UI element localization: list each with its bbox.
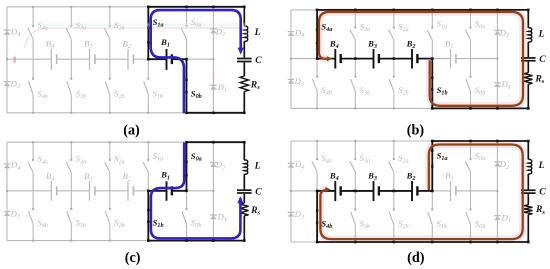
battery B1 [166,49,168,70]
switch S0a (closed) [186,142,188,191]
switch S2a (open) [109,142,111,159]
wire diode column [496,10,498,109]
wire bottom rail gray [291,241,317,243]
wire bottom rail bold [187,112,245,114]
switch S1b (open) [147,59,149,78]
diode D1 [210,214,217,216]
svg-text:L: L [538,28,545,39]
svg-text:C: C [539,187,546,198]
wire top rail bold [148,6,244,8]
junction dots top rail [32,141,34,143]
battery B2 [411,181,413,201]
wire top rail gray [7,6,148,8]
switch S0b (open) [186,191,188,209]
battery B4 [50,49,52,70]
switch S1b (closed) [431,59,433,109]
diode D1 [210,84,217,86]
battery B4 [334,49,336,69]
wire top rail bold [317,9,528,11]
switch S2b (open) [109,59,111,78]
junction dots middle rail [316,57,319,60]
junction dots top rail [32,6,34,8]
wire middle rail gray [291,58,317,60]
current path blue (S0a - B1 - S1b - load) [151,142,241,238]
junction dots bottom rail [316,241,319,244]
wire left edge (a) [6,7,8,113]
wire middle rail bold [148,190,166,192]
junction dots top rail [316,140,318,142]
resistor Rs [524,205,532,215]
diode D3 [4,211,11,213]
wire top rail gray [291,140,432,142]
switch S0b (closed) [186,59,188,113]
switch S1a (closed) [431,141,433,191]
switch S3b (open) [354,191,356,209]
switch S4b (closed) [316,191,318,242]
junction dots bottom rail [316,107,318,109]
current path red halo [319,12,523,106]
switch S2a (open) [109,7,111,26]
wire top rail gray [291,9,317,11]
junction dots top rail [316,9,319,12]
battery B2 [127,49,129,70]
svg-text:C: C [539,54,546,65]
switch S3a (open) [70,7,72,26]
switch S2a (open) [393,10,395,27]
junction dots middle rail [316,190,319,193]
wire top rail bold [187,141,245,143]
switch S4b (open) [32,191,34,209]
switch S3a (open) [354,141,356,159]
switch S3b (open) [70,59,72,78]
wire bottom rail gray [7,240,148,242]
switch S1b (closed) [147,191,149,241]
wire left edge (b) [290,10,292,109]
battery B3 [373,49,375,69]
wire load branch [527,10,529,28]
switch S2b (open) [393,59,395,77]
battery B2 [411,49,413,69]
diode D2 [494,29,501,31]
panel (b) [288,9,547,110]
wire diode column [212,142,214,240]
diode D1 [494,215,501,217]
wire bottom rail gray [7,112,187,114]
svg-text:L: L [254,161,261,172]
switch S3b (open) [354,59,356,77]
junction dots middle rail [147,190,150,193]
current path red (S1a - load - S4b - B4..B2) [320,145,522,240]
switch S1a (open) [147,142,149,159]
diode D2 [210,162,217,164]
switch S0a (open) [470,141,472,159]
inductor L [244,26,247,41]
diode D3 [288,78,295,80]
svg-text:(c): (c) [125,250,141,266]
svg-text:(b): (b) [407,122,425,138]
battery B3 [373,181,375,201]
wire diode column [496,141,498,242]
wire middle rail gray [291,190,317,192]
diode D2 [210,28,217,30]
junction dots bottom rail [32,240,34,242]
switch S1a (open) [431,10,433,27]
current path blue (S1a - top rail - load) [151,10,241,113]
wire middle rail gray [7,58,51,60]
svg-text:C: C [255,55,262,66]
switch S4a (open) [32,142,34,159]
switch S2b (open) [109,191,111,209]
battery B1 [450,49,452,69]
wire middle rail bold [148,58,166,60]
wire bottom rail bold [432,107,528,109]
battery B1 [166,181,168,201]
current path red (S4a - B4..B2 - S1b - load) [319,12,523,106]
battery B2 [127,181,129,201]
switch S4b (open) [316,59,318,77]
resistor Rs [240,203,248,216]
switch S3a (open) [354,10,356,27]
wire bottom rail bold [317,241,528,243]
diode D4 [4,163,11,165]
resistor Rs [240,76,248,91]
panel (a) [4,6,263,115]
capacitor C [237,58,252,60]
resistor Rs [524,73,532,84]
switch S1b (open) [431,191,433,209]
switch S4b (open) [32,59,34,78]
battery B3 [89,49,91,70]
diode D4 [288,162,295,164]
current path (blue) residual pink artifacts [42,23,246,26]
inductor L [244,160,247,174]
wire middle rail gray [7,190,51,192]
diode D3 [288,211,295,213]
panel (c) [4,141,263,242]
inductor L [528,28,531,42]
diode D4 [288,31,295,33]
diode D4 [4,29,11,31]
wire left edge (c) [6,142,8,240]
wire diode column [212,7,214,113]
switch S4a (open) [316,141,318,159]
inductor L [528,159,531,174]
switch S0b (open) [470,59,472,77]
junction dots bottom rail [32,112,34,114]
svg-text:L: L [254,27,261,38]
capacitor C [237,189,252,191]
capacitor C [521,189,536,191]
panel (d) [288,140,547,244]
wire bottom rail gray [291,107,432,109]
battery B3 [89,181,91,201]
wire top rail gray [7,141,187,143]
battery B4 [50,181,52,201]
switch S3a (open) [70,142,72,159]
switch S1a (closed) [147,7,149,59]
diode D2 [494,161,501,163]
svg-text:(d): (d) [407,250,425,266]
switch S0b (open) [470,191,472,209]
switch S4a (closed) [316,10,318,59]
switch S0a (open) [470,10,472,27]
wire middle rail bold [317,190,335,192]
diode D1 [494,82,501,84]
switch S3b (open) [70,191,72,209]
switch S2b (open) [393,191,395,209]
battery B4 [334,181,336,201]
diode D3 [4,81,11,83]
svg-text:L: L [538,160,545,171]
wire load branch [527,141,529,159]
junction dots middle rail [147,58,150,61]
switch S4a (open) [32,7,34,26]
capacitor C [521,57,536,59]
svg-text:C: C [255,186,262,197]
wire bottom rail bold [148,240,244,242]
switch S0a (open) [186,7,188,26]
wire top rail bold [432,140,528,142]
current path red halo [320,145,522,240]
switch S2a (open) [393,141,395,159]
wire left edge (d) [290,141,292,242]
svg-text:(a): (a) [123,122,140,138]
wire load branch [243,7,245,26]
wire load branch [243,142,245,160]
battery B1 [450,181,452,201]
wire middle rail bold [317,58,335,60]
